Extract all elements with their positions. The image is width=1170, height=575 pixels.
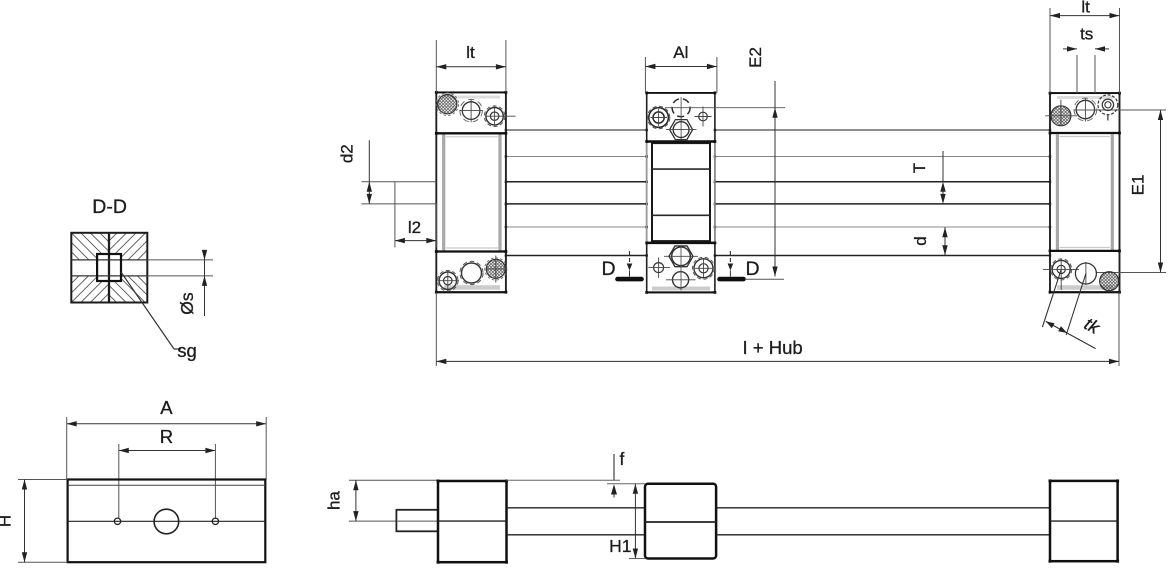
carriage top band bottom edge <box>647 140 715 143</box>
right cap screw knurled bottom-right <box>1100 272 1119 291</box>
plate inner top line <box>68 484 266 486</box>
svg-text:A: A <box>160 397 173 418</box>
svg-text:Al: Al <box>673 43 688 62</box>
sg slot square <box>97 254 121 281</box>
right block corner dots <box>1049 479 1120 562</box>
left end cap bottom band top edge <box>436 250 506 252</box>
right end cap inset gray bands <box>1056 134 1059 250</box>
section mark D right <box>720 251 785 280</box>
f extension line from carriage top <box>607 483 645 485</box>
svg-text:d: d <box>911 236 930 245</box>
carriage body plate <box>68 480 266 563</box>
cylinder tube profile lines left segment <box>506 130 647 256</box>
dimension A line <box>67 423 267 425</box>
tube line end dots <box>505 129 1052 257</box>
left cap screw target top-right <box>486 108 503 125</box>
section plane thin line right <box>745 278 784 280</box>
right cap port bottom-middle <box>1075 263 1096 284</box>
right cap horizontal centerline to E1 (top) <box>1074 109 1166 111</box>
elevation tube segment left <box>507 508 646 535</box>
dimension R extension right <box>214 444 216 519</box>
dimension tk leader line 2 <box>1066 274 1086 336</box>
left end cap inset gray bands <box>442 135 445 251</box>
carriage bottom band top edge <box>647 242 715 245</box>
svg-text:lt: lt <box>466 43 475 62</box>
svg-text:E1: E1 <box>1129 175 1148 196</box>
dimension Al carriage <box>645 43 717 93</box>
channel upper line <box>71 259 147 261</box>
left cap port bottom-middle <box>462 263 482 283</box>
carriage top edge <box>647 92 715 94</box>
carriage centerline horizontal (E2 reference) <box>665 107 785 109</box>
dimension ha line <box>355 480 357 521</box>
carriage bottom band vertical centerline <box>680 245 682 291</box>
carriage inner rectangle <box>652 143 710 241</box>
svg-text:H1: H1 <box>609 536 631 556</box>
dimension l2 <box>395 182 436 248</box>
right cap top band shadow <box>1057 96 1113 99</box>
f dimension line <box>613 454 615 480</box>
carriage top band small hole right <box>699 112 708 121</box>
dimension R line <box>119 450 216 452</box>
svg-text:lt: lt <box>1081 0 1090 17</box>
svg-text:sg: sg <box>177 340 197 361</box>
left cap screw target bottom-left <box>439 272 456 289</box>
right cap corner dots <box>1049 92 1121 294</box>
left cap screw knurled top-left <box>438 95 457 114</box>
carriage top band hex nut <box>670 120 693 140</box>
right end cap top band bottom edge <box>1050 132 1120 134</box>
dimension Os extension lower <box>147 275 213 277</box>
carriage outline <box>645 92 785 294</box>
carriage middle outer side softening <box>646 143 648 242</box>
elevation tube segment right <box>716 508 1050 535</box>
carriage bottom band small hole left <box>654 263 664 273</box>
carriage centerline vertical <box>680 97 682 141</box>
svg-text:T: T <box>910 163 929 173</box>
ha extension top line <box>349 479 438 481</box>
H1 dimension line <box>634 484 636 559</box>
svg-text:E2: E2 <box>746 47 765 68</box>
dimension A extension left <box>66 417 68 480</box>
right cap screw knurled top-left <box>1051 106 1071 126</box>
dimension Os extension upper <box>147 259 213 261</box>
right cap port top-middle <box>1076 100 1094 118</box>
hatching bottom-right quadrant <box>71 276 240 303</box>
carriage bottom band port <box>673 272 689 288</box>
left cap corner dots <box>435 91 507 294</box>
view D-D section view of carriage <box>14 196 240 361</box>
left end cap bottom edge <box>436 291 506 293</box>
svg-text:f: f <box>620 449 625 469</box>
carriage bottom edge <box>647 291 715 293</box>
right end cap bottom edge <box>1050 291 1120 293</box>
dimension E2 <box>746 47 778 276</box>
elevation left end block <box>437 480 509 564</box>
right cap horizontal centerline to E1 (bottom) <box>1097 272 1166 274</box>
carriage top band port top-middle <box>672 99 690 117</box>
rod rectangle <box>396 510 438 532</box>
dimension lt left cap <box>436 40 506 92</box>
channel lower line <box>71 275 147 277</box>
dimension R extension left <box>118 444 120 519</box>
dimension E1 <box>1129 110 1164 273</box>
dimension f <box>507 449 646 498</box>
svg-text:ts: ts <box>1080 25 1093 44</box>
plate centerline <box>68 520 266 522</box>
svg-text:D-D: D-D <box>92 196 127 218</box>
svg-text:H: H <box>0 515 15 527</box>
hatching top-right quadrant <box>71 233 241 260</box>
right end cap bottom band top edge <box>1050 250 1120 252</box>
left cap screw knurled bottom-right <box>486 259 505 278</box>
left cap top band shadow <box>444 96 500 99</box>
right cap bottom band shadow <box>1057 285 1113 290</box>
carriage top band target screw left <box>649 108 669 128</box>
ha extension axis line <box>349 520 438 522</box>
dimension tk line <box>1046 321 1096 348</box>
right cap flower screw top-right <box>1098 95 1118 115</box>
left cap port top-middle <box>462 102 480 120</box>
svg-text:Øs: Øs <box>177 292 197 315</box>
svg-text:ha: ha <box>325 491 344 510</box>
carriage inner divider upper <box>652 168 710 170</box>
carriage bottom band shadow line <box>652 287 710 291</box>
elevation right end block <box>1049 479 1120 562</box>
carriage bottom band target screw right <box>694 259 713 278</box>
right cap target screw bottom-left <box>1052 260 1070 278</box>
dimension H1 <box>609 484 645 559</box>
sensor hole left <box>114 518 120 524</box>
left block corner dots <box>437 480 509 564</box>
dimension Os line <box>204 250 206 316</box>
H1 extension bottom tick <box>629 558 645 560</box>
dimension A extension right <box>265 417 267 480</box>
svg-text:I + Hub: I + Hub <box>743 337 803 358</box>
carriage bottom band hex nut <box>669 246 693 267</box>
left block midline <box>438 520 507 522</box>
hatching bottom-left quadrant <box>14 276 183 303</box>
section body square outline <box>71 233 147 303</box>
dimension tk leader line 1 <box>1042 269 1103 348</box>
f extension line from blocks top <box>507 479 621 481</box>
left cap bottom band shadow <box>444 285 500 290</box>
svg-text:D: D <box>745 258 759 280</box>
svg-text:R: R <box>160 426 173 447</box>
svg-text:D: D <box>601 258 615 280</box>
dimension H extension top <box>18 479 68 481</box>
left end cap top band bottom edge <box>436 132 506 134</box>
svg-text:d2: d2 <box>337 144 356 163</box>
dimension d <box>911 227 948 255</box>
dimension d2 <box>337 140 437 204</box>
left end cap outline <box>435 91 516 294</box>
center hole <box>154 509 179 534</box>
left end cap top edge <box>436 91 506 93</box>
dimension I + Hub <box>436 292 1119 366</box>
right block midline <box>1050 520 1118 522</box>
vertical centerline of section <box>108 233 110 303</box>
dimension H extension bottom <box>18 561 68 563</box>
cylinder tube profile lines right segment <box>715 130 1050 256</box>
section mark D left <box>601 251 641 280</box>
dimension ts right cap <box>1063 25 1109 94</box>
dimension H line <box>24 480 26 563</box>
elevation carriage block <box>645 484 716 559</box>
carriage midline <box>645 521 716 523</box>
carriage corner dots <box>645 92 716 294</box>
sensor hole right <box>212 518 218 524</box>
view carriage plan view bottom-left <box>0 397 266 562</box>
elevation piston rod left <box>325 480 439 531</box>
leader line to sg <box>121 272 174 349</box>
right end cap top edge <box>1050 92 1120 94</box>
svg-text:l2: l2 <box>408 218 421 237</box>
dimension T <box>910 151 946 204</box>
dimension lt right cap <box>1050 0 1120 93</box>
right end cap outline <box>1043 92 1166 294</box>
hatching top-left quadrant <box>14 233 184 260</box>
carriage inner divider lower <box>652 214 710 216</box>
